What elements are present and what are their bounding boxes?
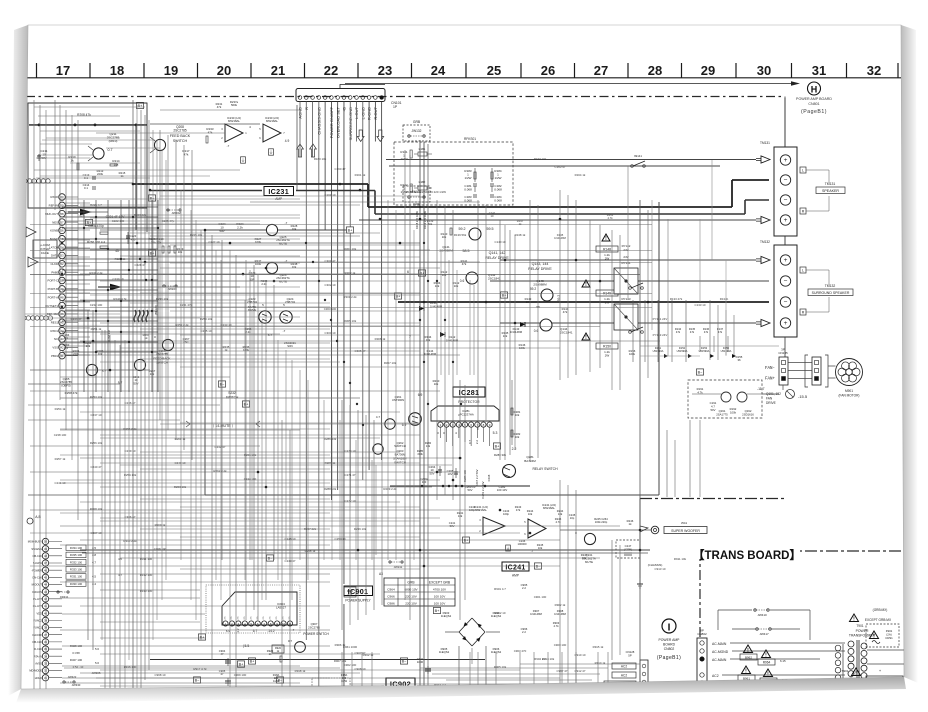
svg-text:EXCEPT GRB: EXCEPT GRB bbox=[429, 580, 451, 584]
svg-text:FAN+: FAN+ bbox=[765, 378, 776, 382]
svg-text:C272 10: C272 10 bbox=[345, 499, 356, 503]
wire field vertical bbox=[34, 98, 785, 712]
svg-text:B+: B+ bbox=[244, 402, 250, 406]
transformer secondary wires bbox=[867, 650, 905, 700]
label POWER AMP BOARD CN802 bbox=[657, 638, 681, 661]
svg-text:60: 60 bbox=[60, 195, 64, 199]
svg-text:47k: 47k bbox=[563, 310, 568, 314]
svg-text:R915 1k: R915 1k bbox=[593, 645, 604, 649]
relay area extra labels bbox=[427, 211, 614, 240]
label R245b 220k C244b bbox=[581, 553, 588, 560]
svg-text:FAN: FAN bbox=[766, 397, 773, 401]
IC pin column upper (system control) bbox=[45, 194, 78, 359]
svg-text:C308 100: C308 100 bbox=[154, 547, 167, 551]
capacitor C911 bbox=[417, 657, 431, 674]
svg-text:PY141 24V: PY141 24V bbox=[653, 317, 668, 321]
svg-text:I: I bbox=[668, 623, 671, 634]
svg-text:POWER: POWER bbox=[856, 629, 869, 633]
resistor R182 bbox=[400, 183, 412, 194]
label D905 11EQS2 bbox=[439, 647, 450, 654]
svg-text:R309 1k: R309 1k bbox=[155, 523, 166, 527]
extra junction dots left cluster bbox=[61, 216, 159, 353]
svg-text:4.7: 4.7 bbox=[376, 415, 381, 419]
svg-text:R310 2.2k: R310 2.2k bbox=[123, 539, 137, 543]
label Q232 labels right bbox=[223, 345, 268, 353]
svg-text:C237 10: C237 10 bbox=[91, 413, 102, 417]
svg-text:11EQS2: 11EQS2 bbox=[439, 650, 450, 654]
svg-text:AC-MAIN: AC-MAIN bbox=[712, 658, 727, 662]
heavy wire to TM132 terminal 3 bbox=[398, 301, 769, 303]
svg-text:R139 56k: R139 56k bbox=[454, 233, 467, 237]
labels R264 R266b bbox=[73, 349, 104, 356]
svg-text:4.7k: 4.7k bbox=[555, 520, 561, 524]
wire pair y=550 bbox=[82, 552, 648, 554]
label JW202 bbox=[167, 209, 181, 215]
svg-text:R902 1k: R902 1k bbox=[555, 603, 566, 607]
label 2.2 Q281 bbox=[494, 447, 516, 457]
svg-text:6: 6 bbox=[407, 270, 409, 274]
capacitor C182 bbox=[490, 184, 502, 192]
miscellaneous tiny part labels bbox=[54, 157, 729, 691]
svg-text:2SA1775: 2SA1775 bbox=[716, 412, 728, 416]
svg-text:1N4148M: 1N4148M bbox=[510, 330, 523, 334]
wire AC-MAIN rows bbox=[730, 643, 845, 659]
jumper JW410 bbox=[718, 609, 810, 617]
enclosure box top edge bbox=[205, 229, 350, 231]
svg-text:2.2: 2.2 bbox=[522, 630, 526, 634]
fuse F901 dashed box bbox=[866, 624, 899, 647]
svg-text:R268 1M: R268 1M bbox=[107, 330, 111, 342]
svg-text:10k: 10k bbox=[434, 382, 439, 386]
svg-text:(08F0): (08F0) bbox=[109, 139, 118, 143]
svg-text:4.7k: 4.7k bbox=[607, 216, 613, 220]
svg-text:R318 220 1/2W: R318 220 1/2W bbox=[415, 210, 419, 229]
svg-text:VDD: VDD bbox=[37, 611, 43, 615]
labels R226 R219 bbox=[148, 237, 164, 244]
capacitor C184 bbox=[490, 195, 502, 203]
svg-text:AC-MGND: AC-MGND bbox=[712, 650, 729, 654]
bottom strip labels bbox=[92, 645, 604, 687]
svg-text:10k: 10k bbox=[442, 273, 447, 277]
filter block RFKS01 dashed outline bbox=[394, 137, 513, 205]
label R142 10k bbox=[441, 270, 448, 277]
svg-text:0.1: 0.1 bbox=[84, 186, 88, 190]
label C229 R235 bbox=[249, 271, 268, 286]
svg-text:(FAN MOTOR): (FAN MOTOR) bbox=[838, 393, 859, 397]
capacitor C213 C214 bbox=[83, 173, 96, 190]
label R286 etc2 bbox=[420, 477, 428, 484]
svg-text:MUF-OUT: MUF-OUT bbox=[45, 212, 58, 216]
svg-text:CN801: CN801 bbox=[808, 102, 819, 106]
relay contact SW3 bbox=[629, 327, 644, 333]
connector CN128 small bbox=[626, 650, 648, 706]
svg-text:47k: 47k bbox=[676, 330, 681, 334]
transformer primary left windings bbox=[835, 644, 843, 712]
svg-text:µPC1237HA: µPC1237HA bbox=[458, 413, 474, 417]
label FAN- FAN+ bbox=[765, 367, 776, 382]
svg-text:41: 41 bbox=[60, 354, 64, 358]
label Q241 MUTE bbox=[582, 553, 596, 564]
svg-text:C307 10: C307 10 bbox=[91, 531, 102, 535]
capacitor C223 bbox=[126, 232, 137, 244]
bridge rectifier D903-D906 bbox=[459, 618, 485, 646]
svg-text:RXD0: RXD0 bbox=[51, 195, 59, 199]
warning triangle T901 bbox=[850, 614, 859, 623]
svg-text:C227 10: C227 10 bbox=[209, 240, 220, 244]
jumper JW241 bbox=[389, 561, 403, 569]
voltmeter symbol bbox=[786, 390, 795, 399]
svg-text:C963 470: C963 470 bbox=[514, 649, 527, 653]
svg-text:POWER SWITCH: POWER SWITCH bbox=[303, 632, 329, 636]
CN101 pin bus wires down bbox=[300, 102, 382, 712]
svg-text:R286 33k: R286 33k bbox=[324, 437, 337, 441]
scanned page shadow right bbox=[901, 25, 918, 683]
power rail label B- (bottom1) bbox=[193, 677, 200, 683]
svg-text:B−: B− bbox=[150, 196, 156, 200]
label C906 bbox=[521, 627, 528, 634]
enclosure box right edge bbox=[658, 202, 660, 495]
transistor Q266 feed back switch bbox=[134, 359, 145, 370]
svg-text:5.3: 5.3 bbox=[493, 431, 498, 435]
capacitor C266 bbox=[463, 469, 467, 482]
svg-text:2SB734: 2SB734 bbox=[285, 300, 295, 304]
svg-text:R208 47k: R208 47k bbox=[77, 113, 91, 117]
svg-text:−: − bbox=[784, 177, 788, 184]
label C221 4.7 50V bbox=[106, 215, 126, 219]
svg-text:POWER AMP BOARD: POWER AMP BOARD bbox=[796, 97, 832, 101]
enclosure box bottom edge bbox=[205, 494, 659, 496]
svg-text:C161 10: C161 10 bbox=[325, 193, 336, 197]
svg-text:CN802: CN802 bbox=[664, 647, 675, 651]
svg-text:C901 100: C901 100 bbox=[534, 595, 547, 599]
svg-text:6.15: 6.15 bbox=[780, 659, 786, 663]
svg-text:R918 1k: R918 1k bbox=[295, 669, 306, 673]
resistor ladder small bbox=[100, 232, 108, 248]
label R208 47k bbox=[77, 113, 91, 117]
svg-text:R: R bbox=[802, 210, 805, 214]
svg-text:RXD1: RXD1 bbox=[51, 329, 59, 333]
transistors Q191 Q192 fan drive bbox=[688, 380, 781, 418]
svg-text:Q141, 142: Q141, 142 bbox=[489, 251, 506, 255]
svg-text:C268: C268 bbox=[487, 474, 491, 481]
label Q141 142 RELAY DRIVE bbox=[485, 251, 509, 260]
svg-text:47k: 47k bbox=[184, 152, 189, 156]
label Q281 RELAY SWITCH bbox=[524, 455, 558, 471]
svg-text:2SD1616: 2SD1616 bbox=[742, 412, 754, 416]
resistor R184 bbox=[491, 168, 502, 182]
label D155 36 bbox=[736, 355, 743, 362]
svg-text:2SC2785: 2SC2785 bbox=[308, 625, 320, 629]
svg-text:220k: 220k bbox=[73, 352, 80, 356]
transistor Q221 mute bbox=[255, 221, 298, 244]
svg-text:220k: 220k bbox=[97, 172, 104, 176]
wire field horizontal fine bbox=[34, 107, 420, 569]
svg-text:22: 22 bbox=[324, 63, 338, 78]
inductor L182 bbox=[414, 180, 432, 190]
svg-text:PY143 24V: PY143 24V bbox=[653, 333, 668, 337]
svg-text:J541: J541 bbox=[681, 521, 688, 525]
svg-text:PL-LNT: PL-LNT bbox=[33, 597, 42, 601]
boxed R150 bbox=[596, 343, 618, 357]
capacitor C905a bbox=[219, 669, 231, 686]
svg-text:C302 10: C302 10 bbox=[325, 283, 336, 287]
IC IC904 LA5527 body bbox=[222, 592, 297, 626]
svg-text:R150: R150 bbox=[603, 345, 611, 349]
labels C224 R224 bbox=[218, 222, 244, 233]
svg-text:R138 1k: R138 1k bbox=[515, 233, 526, 237]
label C241 50V bbox=[449, 521, 456, 528]
svg-text:AC2: AC2 bbox=[621, 665, 627, 669]
svg-text:(PageB1): (PageB1) bbox=[657, 655, 681, 661]
svg-text:0.7: 0.7 bbox=[468, 440, 472, 445]
svg-text:JW241: JW241 bbox=[394, 565, 403, 569]
transistor Q210 bbox=[88, 146, 113, 161]
svg-text:C236 47: C236 47 bbox=[125, 401, 136, 405]
label R248 C244 etc bbox=[555, 509, 576, 524]
label R267b C262 bbox=[133, 369, 156, 385]
relay contact SW1 bbox=[631, 154, 646, 167]
svg-text:5P: 5P bbox=[628, 653, 632, 657]
svg-text:【TRANS BOARD】: 【TRANS BOARD】 bbox=[693, 549, 801, 562]
label Q266 FEED BACK SWITCH bbox=[153, 349, 170, 365]
label (BEAD) bbox=[154, 305, 158, 315]
capacitor C183 bbox=[464, 195, 477, 203]
svg-text:C967 47: C967 47 bbox=[557, 669, 568, 673]
svg-text:MD-MODE: MD-MODE bbox=[29, 669, 42, 673]
jumper JW417 bbox=[732, 628, 800, 636]
warning triangle S901 bbox=[842, 668, 861, 677]
resistors R330-R335 bbox=[66, 545, 96, 586]
svg-text:R964: R964 bbox=[763, 661, 771, 665]
svg-text:58.5: 58.5 bbox=[463, 249, 470, 253]
svg-text:CR91: CR91 bbox=[885, 636, 893, 640]
svg-text:PORT-C: PORT-C bbox=[47, 279, 58, 283]
svg-text:AC2: AC2 bbox=[712, 674, 719, 678]
ground chassis symbol bbox=[637, 578, 643, 588]
svg-text:10: 10 bbox=[491, 214, 494, 218]
svg-text:6.9: 6.9 bbox=[402, 423, 407, 427]
svg-text:47k: 47k bbox=[208, 130, 213, 134]
svg-text:47k: 47k bbox=[516, 508, 521, 512]
svg-text:RES1: RES1 bbox=[51, 320, 59, 324]
svg-text:B−: B− bbox=[268, 556, 274, 560]
label GRB MX bbox=[865, 608, 892, 622]
svg-text:56: 56 bbox=[60, 229, 64, 233]
op-amp IC241 2/2 bbox=[524, 503, 556, 538]
svg-text:M901: M901 bbox=[845, 389, 853, 393]
svg-text:10k: 10k bbox=[558, 512, 563, 516]
warning triangle R963 bbox=[760, 669, 788, 684]
power rail label B- (bottom2) bbox=[276, 677, 350, 687]
svg-text:C270 10: C270 10 bbox=[345, 449, 356, 453]
warning triangle 3 bbox=[582, 333, 590, 341]
wire to TM132 terminal 4 (arrow) bbox=[500, 319, 770, 326]
labels R134 R135 resistors row bbox=[675, 327, 724, 334]
board boundary chain line (middle right) bbox=[640, 498, 787, 500]
svg-text:4.7k: 4.7k bbox=[348, 593, 353, 596]
connector CN802 bbox=[697, 629, 707, 712]
svg-text:4.7k: 4.7k bbox=[553, 624, 559, 628]
power rail label B+ (IC904 mid) bbox=[248, 658, 255, 664]
svg-text:25: 25 bbox=[487, 63, 501, 78]
IC IC281 uPC1237HA body bbox=[431, 406, 499, 446]
svg-text:99141: 99141 bbox=[634, 154, 642, 158]
svg-text:47k: 47k bbox=[217, 105, 222, 109]
label R281 10k bbox=[511, 380, 521, 445]
svg-text:C964: C964 bbox=[387, 587, 395, 591]
svg-text:100 10V: 100 10V bbox=[497, 488, 508, 492]
svg-text:RFKS01: RFKS01 bbox=[464, 137, 476, 141]
black arrow node 1 bbox=[68, 209, 92, 216]
svg-text:FUNC2: FUNC2 bbox=[33, 618, 42, 622]
scanned page shadow bottom bbox=[16, 677, 906, 703]
relay RY141 bbox=[614, 261, 638, 294]
label Q191 Q192 part numbers bbox=[716, 409, 754, 416]
wire to TM132 terminal 2 bbox=[490, 280, 769, 282]
IC904 pin top labels bbox=[225, 616, 292, 620]
svg-text:L: L bbox=[802, 169, 804, 173]
svg-text:FACE: FACE bbox=[41, 251, 49, 255]
svg-text:23: 23 bbox=[378, 63, 392, 78]
label 6.5 bbox=[80, 214, 85, 218]
resistor R183 bbox=[464, 168, 476, 182]
diode D143 bbox=[510, 322, 525, 334]
svg-text:D-CLK: D-CLK bbox=[34, 647, 42, 651]
bridge output wires bbox=[445, 632, 500, 712]
transistor Q208 feed back switch bbox=[150, 137, 166, 153]
label 7 node bbox=[409, 335, 411, 339]
svg-text:R916 100: R916 100 bbox=[124, 665, 137, 669]
label Q262 SWITCH bbox=[394, 441, 406, 448]
power rail label B- (left) bbox=[266, 555, 273, 561]
svg-text:0.6: 0.6 bbox=[460, 279, 465, 283]
table capacitor options GRB bbox=[379, 572, 455, 606]
svg-text:47k: 47k bbox=[704, 330, 709, 334]
jumper JW132 (GRB option box) bbox=[403, 120, 430, 141]
resistor R304 R142 bbox=[434, 281, 460, 288]
svg-text:31: 31 bbox=[812, 63, 826, 78]
svg-text:10k: 10k bbox=[515, 435, 520, 439]
svg-text:45: 45 bbox=[115, 249, 119, 253]
label TM131 SPEAKER bbox=[800, 167, 845, 214]
resistor R146 bbox=[519, 343, 526, 350]
svg-text:PA80: PA80 bbox=[51, 270, 58, 274]
svg-text:(GRB:MX): (GRB:MX) bbox=[873, 608, 888, 612]
svg-text:B−: B− bbox=[195, 678, 201, 682]
svg-text:50V: 50V bbox=[711, 408, 716, 412]
svg-text:R148: R148 bbox=[603, 248, 611, 252]
svg-text:FUNC1: FUNC1 bbox=[33, 626, 42, 630]
capacitor C181 bbox=[464, 184, 477, 192]
svg-text:0.068: 0.068 bbox=[464, 188, 472, 192]
label 15.5 bbox=[243, 644, 250, 648]
signal arrow down (L-OUT) bbox=[357, 130, 364, 142]
transistor Q223 mute drive bbox=[259, 311, 271, 323]
svg-text:220 10V: 220 10V bbox=[405, 601, 417, 605]
label C246 etc bbox=[518, 539, 544, 553]
label R241 C242 bbox=[457, 505, 476, 518]
label D906 11EQS2 bbox=[491, 647, 502, 654]
svg-text:NC: NC bbox=[54, 337, 58, 341]
svg-text:−: − bbox=[784, 278, 788, 285]
svg-text:4.7: 4.7 bbox=[118, 573, 122, 577]
power rail label B+ (mid2) bbox=[148, 250, 155, 256]
svg-text:10k: 10k bbox=[454, 284, 459, 288]
svg-text:(BEAD): (BEAD) bbox=[154, 305, 158, 315]
svg-text:100p: 100p bbox=[503, 512, 509, 516]
power rail label B+ (IC281) bbox=[493, 443, 500, 449]
svg-text:10k: 10k bbox=[292, 227, 297, 231]
svg-text:M5218AL: M5218AL bbox=[543, 506, 555, 510]
svg-text:FAN-: FAN- bbox=[765, 367, 775, 371]
warning triangle R964 bbox=[758, 650, 786, 665]
svg-text:6800 10V: 6800 10V bbox=[404, 587, 418, 591]
signal arrow down (R-OUT) bbox=[377, 130, 384, 142]
wire to super woofer bbox=[560, 529, 651, 531]
label R903 4.7k bbox=[553, 621, 560, 628]
boxed R148 bbox=[596, 246, 618, 260]
svg-text:R334 100: R334 100 bbox=[70, 546, 83, 550]
label 45 bbox=[115, 249, 119, 253]
op-amp buffer left 2 bbox=[28, 257, 38, 267]
svg-text:47k: 47k bbox=[462, 262, 467, 266]
signal arrow up (pin3) bbox=[310, 144, 317, 157]
svg-text:B−: B− bbox=[220, 382, 226, 386]
CN101 pin net name labels bbox=[298, 106, 378, 140]
svg-text:10k: 10k bbox=[458, 514, 463, 518]
svg-text:100000: 100000 bbox=[518, 542, 527, 546]
label Q144 1N4148M bbox=[425, 332, 459, 342]
svg-text:53: 53 bbox=[60, 254, 64, 258]
svg-text:EXCEPT GRB:MX: EXCEPT GRB:MX bbox=[865, 618, 892, 622]
label R282 10k bbox=[511, 430, 521, 439]
svg-text:R257 1k: R257 1k bbox=[55, 457, 66, 461]
svg-text:R308 10k: R308 10k bbox=[90, 507, 103, 511]
heavy wire bus B (R speaker) bbox=[150, 191, 769, 215]
mute bus label bbox=[186, 421, 260, 428]
svg-text:1N4148M: 1N4148M bbox=[530, 612, 542, 616]
power rail label B- (fan) bbox=[696, 369, 703, 375]
label R18A 220 bottom bbox=[273, 673, 348, 683]
wire to TM132 + (arrow) bbox=[500, 256, 770, 263]
svg-text:R335 100: R335 100 bbox=[70, 553, 83, 557]
svg-text:JW203: JW203 bbox=[167, 287, 177, 291]
svg-text:2.2k: 2.2k bbox=[261, 282, 267, 286]
svg-text:C969 100: C969 100 bbox=[234, 673, 247, 677]
svg-text:C968 10: C968 10 bbox=[155, 673, 166, 677]
label R246 1k bbox=[627, 519, 648, 532]
svg-text:0 52...10: 0 52...10 bbox=[73, 665, 84, 669]
svg-text:R912 1k: R912 1k bbox=[363, 653, 374, 657]
svg-text:R134b: R134b bbox=[720, 297, 729, 301]
svg-text:10V: 10V bbox=[448, 472, 453, 476]
svg-text:B−: B− bbox=[536, 564, 542, 568]
svg-text:2.2: 2.2 bbox=[512, 447, 517, 451]
node I (power amp board reference) bbox=[662, 619, 676, 634]
svg-text:-15.5: -15.5 bbox=[798, 394, 808, 399]
svg-text:100k: 100k bbox=[730, 410, 737, 414]
svg-text:C240 47: C240 47 bbox=[91, 465, 102, 469]
svg-text:S232: S232 bbox=[228, 391, 236, 395]
power rail label B+ (heavy line) bbox=[346, 227, 353, 233]
power rail label B+ (bottom3) bbox=[237, 661, 244, 667]
svg-text:SUPER WOOFER: SUPER WOOFER bbox=[671, 529, 700, 533]
svg-text:47: 47 bbox=[221, 672, 224, 676]
warning boxed B961 E-15 bbox=[738, 666, 755, 681]
svg-text:1N4148M: 1N4148M bbox=[554, 236, 566, 240]
svg-text:GRB: GRB bbox=[413, 120, 421, 124]
svg-text:MUTE: MUTE bbox=[279, 279, 287, 283]
